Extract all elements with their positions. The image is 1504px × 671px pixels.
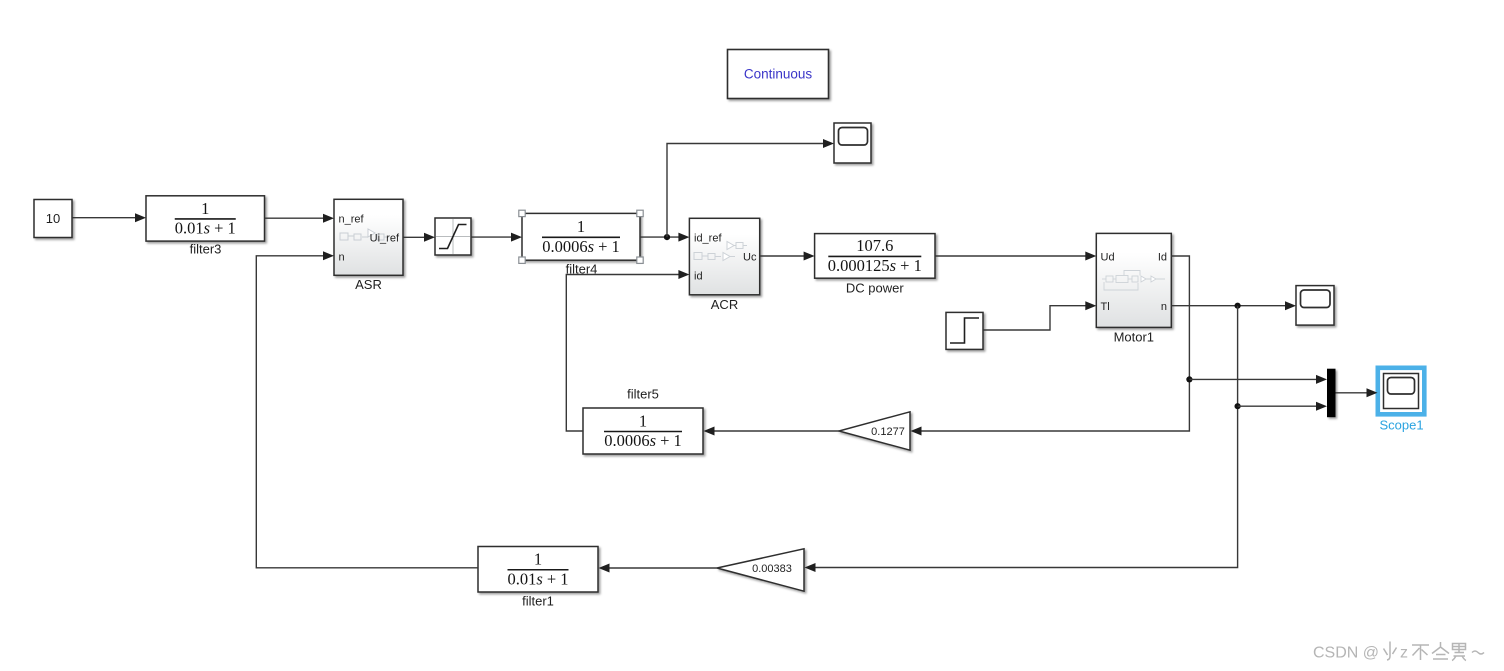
svg-text:Uc: Uc: [743, 252, 757, 264]
transfer-fn block filter3 1/(0.01s+1): [146, 196, 265, 241]
svg-text:n_ref: n_ref: [339, 214, 365, 226]
svg-text:107.6: 107.6: [856, 236, 893, 255]
wire Motor1 n to scope: [1172, 305, 1287, 307]
svg-text:0.000125s + 1: 0.000125s + 1: [828, 256, 922, 275]
wire filter3 to ASR n_ref: [265, 217, 324, 219]
svg-text:10: 10: [46, 211, 60, 226]
wire DC power to Motor1 Ud: [936, 255, 1087, 257]
junction node Id-feedback to mux: [1186, 376, 1192, 382]
svg-text:Tl: Tl: [1101, 301, 1110, 313]
wire branch n down to gain 0.00383: [815, 306, 1238, 568]
svg-text:filter3: filter3: [190, 242, 222, 257]
svg-text:0.01s + 1: 0.01s + 1: [507, 569, 568, 588]
wire constant-10 to filter3: [73, 217, 137, 219]
wire ASR Ui_ref to saturation: [404, 236, 426, 238]
constant block "10": [34, 200, 72, 238]
subsystem block Motor1: [1096, 233, 1171, 327]
wire ACR Uc to DC power: [760, 255, 804, 257]
subsystem block ASR: [334, 199, 403, 275]
wire branch filter4-output up to top scope: [667, 144, 824, 238]
junction node on filter4 output: [664, 234, 670, 240]
junction node on n wire: [1235, 303, 1241, 309]
svg-text:Ud: Ud: [1101, 252, 1115, 264]
step block: [946, 312, 983, 349]
transfer-fn block "DC power" 107.6/(0.000125s+1): [815, 234, 935, 279]
transfer-fn block filter4 1/(0.0006s+1) (selected): [522, 213, 640, 260]
svg-text:filter1: filter1: [522, 594, 554, 609]
watermark CSDN @xiao-z: [1313, 642, 1484, 662]
svg-text:Id: Id: [1158, 252, 1167, 264]
gain block 0.1277 (flipped): [839, 412, 910, 450]
wire gain 0.1277 to filter5: [714, 430, 839, 432]
transfer-fn block filter1 1/(0.01s+1): [478, 547, 598, 593]
svg-text:ASR: ASR: [355, 277, 382, 292]
svg-text:Scope1: Scope1: [1379, 418, 1423, 433]
svg-text:0.01s + 1: 0.01s + 1: [175, 219, 236, 238]
svg-text:1: 1: [201, 199, 209, 218]
wire gain 0.00383 to filter1: [609, 567, 717, 569]
svg-text:id_ref: id_ref: [694, 233, 722, 245]
transfer-fn block filter5 1/(0.0006s+1): [583, 408, 703, 454]
junction node n-feedback to mux: [1235, 403, 1241, 409]
mux block: [1327, 369, 1336, 418]
svg-text:filter5: filter5: [627, 387, 659, 402]
wire filter1 to ASR n: [256, 256, 478, 568]
scope block (id_ref scope): [834, 123, 871, 163]
svg-text:Motor1: Motor1: [1114, 330, 1154, 345]
wire Motor1 Id down to gain 0.1277: [921, 256, 1189, 431]
svg-text:0.0006s + 1: 0.0006s + 1: [604, 431, 682, 450]
wire branch n to mux input-2: [1238, 405, 1317, 407]
svg-text:ACR: ACR: [711, 297, 738, 312]
wire branch Id to mux input-1: [1189, 378, 1317, 380]
wire filter4 to ACR id_ref: [641, 236, 680, 238]
scope block Scope1 (selected): [1378, 368, 1425, 415]
subsystem block ACR: [689, 218, 759, 294]
scope block (speed scope): [1296, 286, 1334, 326]
wire filter5 to ACR id: [566, 275, 679, 432]
gain block 0.00383 (flipped): [717, 549, 804, 591]
svg-text:0.1277: 0.1277: [871, 426, 905, 438]
svg-text:DC power: DC power: [846, 281, 904, 296]
svg-text:z: z: [1400, 645, 1408, 662]
svg-text:Ui_ref: Ui_ref: [370, 233, 400, 245]
wire step to Motor1 Tl: [984, 306, 1087, 330]
powergui/Continuous block: [728, 50, 829, 99]
svg-text:id: id: [694, 271, 703, 283]
svg-text:n: n: [1161, 301, 1167, 313]
svg-text:CSDN @: CSDN @: [1313, 645, 1379, 662]
selection handles filter4: [519, 210, 643, 263]
wire mux to Scope1: [1336, 392, 1368, 394]
svg-text:1: 1: [639, 411, 647, 430]
svg-text:n: n: [339, 252, 345, 264]
saturation block: [435, 218, 471, 255]
svg-text:Continuous: Continuous: [744, 67, 813, 82]
svg-text:0.00383: 0.00383: [752, 563, 792, 575]
svg-text:0.0006s + 1: 0.0006s + 1: [542, 237, 620, 256]
svg-text:1: 1: [577, 217, 585, 236]
wire saturation to filter4: [472, 236, 513, 238]
svg-text:1: 1: [534, 550, 542, 569]
